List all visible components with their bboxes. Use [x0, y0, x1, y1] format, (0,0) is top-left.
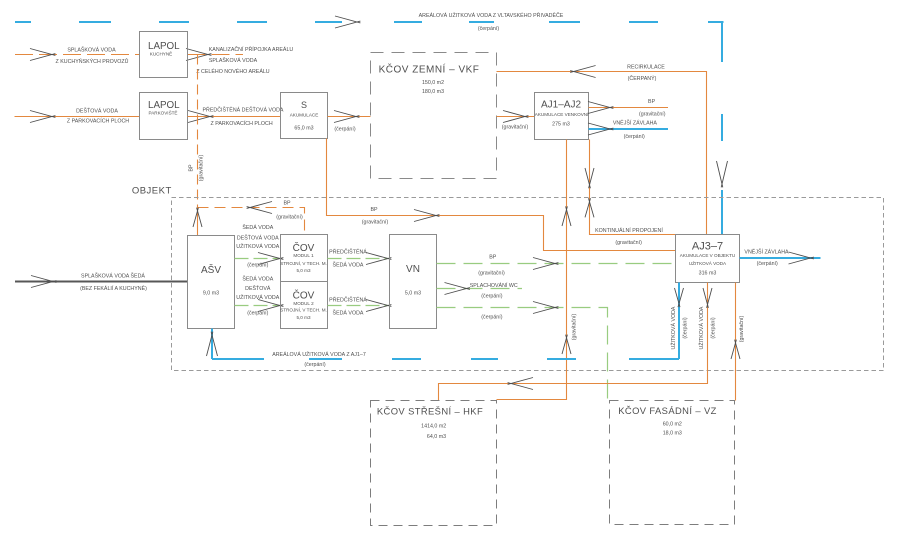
arrow left on recirkulace bottom run [508, 378, 533, 390]
wire VN to KCOV fasadni (green dashed) [437, 308, 608, 401]
separator COV modul1 box [281, 235, 328, 329]
svg-text:Z PARKOVACÍCH PLOCH: Z PARKOVACÍCH PLOCH [210, 120, 272, 127]
arrow VN BP [533, 258, 558, 270]
svg-text:SPLAŠKOVÁ VODA ŠEDÁ: SPLAŠKOVÁ VODA ŠEDÁ [81, 273, 145, 280]
arrow VN cerpani [533, 302, 558, 314]
svg-text:SPLAŠKOVÁ VODA: SPLAŠKOVÁ VODA [209, 57, 258, 64]
node label SPLASKOVA VODA SEDA [80, 273, 147, 292]
svg-text:(čerpání): (čerpání) [334, 126, 355, 132]
svg-text:MODUL 1: MODUL 1 [293, 253, 314, 258]
label LAPOL PARKOVISTE [148, 100, 180, 116]
svg-text:(gravitační): (gravitační) [572, 314, 578, 341]
label (gravitacni) [502, 125, 529, 131]
svg-text:(čerpání): (čerpání) [304, 362, 325, 368]
node label DESTOVA VODA Z PARKOVACICH PLOCH [67, 106, 129, 124]
wire destova voda input (orange) [15, 116, 140, 118]
wire kontinualni propojeni (orange AJ1-AJ2 to AJ3-7) [590, 140, 676, 235]
svg-text:AJ3–7: AJ3–7 [692, 240, 723, 252]
svg-text:BP: BP [370, 207, 378, 213]
label LAPOL KUCHYNE [148, 41, 180, 57]
svg-text:(čerpání): (čerpání) [247, 263, 268, 269]
label (cerpani) [334, 126, 355, 132]
svg-text:64,0 m3: 64,0 m3 [427, 434, 446, 440]
wire AJ3-7 vnejsi zavlaha (cyan) [740, 257, 821, 259]
svg-text:PŘEDČIŠTĚNÁ: PŘEDČIŠTĚNÁ [329, 296, 367, 304]
svg-text:1414,0 m2: 1414,0 m2 [421, 423, 446, 429]
separator LAPOL parkoviste box [140, 93, 188, 140]
label (cerpani) [481, 315, 502, 321]
svg-text:KČOV STŘEŠNÍ – HKF: KČOV STŘEŠNÍ – HKF [377, 406, 483, 417]
separator KCOV FASADNI - VZ dashed box [610, 401, 735, 525]
arrow recirkulace pointing left [570, 66, 595, 78]
svg-text:275 m3: 275 m3 [552, 121, 570, 127]
svg-text:(čerpání): (čerpání) [481, 315, 502, 321]
arrow down cyan [675, 288, 684, 307]
separator AJ3-7 box [676, 235, 740, 283]
svg-text:(čerpání): (čerpání) [624, 134, 645, 140]
node label AREALOVA UZITKOVA VODA Z AJ1-7 [272, 350, 366, 368]
label SPLACHOVANI WC (cerpani) [470, 282, 518, 300]
svg-text:BP: BP [189, 164, 195, 172]
svg-text:(gravitační): (gravitační) [615, 240, 642, 246]
label KONTINUALNI PROPOJENI (gravitacni) [595, 227, 663, 246]
svg-text:ŠEDÁ VODA: ŠEDÁ VODA [333, 309, 364, 316]
svg-text:(čerpání): (čerpání) [247, 311, 268, 317]
arrow up near AJ1-AJ2 [562, 206, 571, 226]
svg-text:180,0 m3: 180,0 m3 [422, 89, 444, 95]
svg-text:5,0 m3: 5,0 m3 [296, 315, 310, 320]
arrow on destova input [30, 111, 55, 123]
wire BP branch (orange dashed vertical from kuchyne line) [197, 55, 199, 208]
wire arealova uzitkova voda z AJ1-7 (cyan dashed bottom) [212, 358, 679, 360]
svg-text:SPLAŠKOVÁ VODA: SPLAŠKOVÁ VODA [67, 47, 116, 54]
svg-text:UŽITKOVÁ VODA: UŽITKOVÁ VODA [697, 306, 705, 349]
label OBJEKT [132, 186, 172, 197]
label (gravitacni) rotated [739, 316, 745, 343]
label VNEJSI ZAVLAHA (cerpani) [613, 119, 658, 141]
label BP (gravitacni) [639, 99, 666, 118]
arrow into VN 1 [366, 253, 391, 265]
svg-text:S: S [301, 100, 307, 110]
wire LAPOL parkoviste to S akumulace (orange) [188, 116, 281, 118]
label BP (gravitacni) [276, 201, 303, 221]
label UZITKOVA VODA (cerpani) rotated cyan line [669, 306, 689, 349]
label S AKUMULACE 65,0 m3 [290, 100, 319, 132]
svg-text:ČOV: ČOV [293, 289, 315, 302]
node label predcistena seda voda 1 [329, 248, 367, 269]
arrow BP return pointing left [247, 202, 272, 214]
svg-text:VN: VN [406, 264, 420, 275]
svg-text:LAPOL: LAPOL [148, 41, 180, 52]
svg-text:(gravitační): (gravitační) [502, 125, 529, 131]
arrow down on cyan riser [717, 161, 728, 187]
wire BP from S akumulace (orange, to AJ3-7) [327, 139, 676, 251]
wire ASV to COV modul2 (green dashed) [235, 305, 281, 307]
node label PREDCISTENA DESTOVA VODA [203, 105, 284, 127]
svg-text:VNĚJŠÍ ZÁVLAHA: VNĚJŠÍ ZÁVLAHA [744, 248, 789, 256]
arrow up into ASV [207, 332, 218, 356]
arrow on splaskova input [30, 49, 55, 61]
svg-text:(ČERPANÝ): (ČERPANÝ) [628, 75, 657, 82]
svg-text:(BEZ FEKÁLIÍ A KUCHYNĚ): (BEZ FEKÁLIÍ A KUCHYNĚ) [80, 284, 147, 292]
svg-text:AŠV: AŠV [201, 263, 221, 276]
svg-text:AREÁLOVÁ UŽITKOVÁ VODA Z AJ1–7: AREÁLOVÁ UŽITKOVÁ VODA Z AJ1–7 [272, 350, 366, 358]
arrow into AJ1-AJ2 [503, 111, 528, 123]
svg-text:DEŠŤOVÁ VODA: DEŠŤOVÁ VODA [237, 233, 279, 241]
svg-text:KANALIZAČNÍ PŘÍPOJKA AREÁLU: KANALIZAČNÍ PŘÍPOJKA AREÁLU [209, 45, 294, 53]
label RECIRKULACE (CERPANY) [627, 64, 665, 82]
svg-text:OBJEKT: OBJEKT [132, 186, 172, 197]
arrow up on kontinualni [585, 198, 594, 217]
arrow on top cyan main [335, 16, 360, 28]
svg-text:STROJNÍ, V TECH. M.: STROJNÍ, V TECH. M. [280, 307, 327, 313]
wire ASV bottom riser (cyan) [211, 329, 213, 360]
separator ASV box [188, 236, 235, 329]
svg-text:5,0 m3: 5,0 m3 [405, 291, 421, 297]
node label seda/destova/uzitkova voda 1 [236, 224, 279, 269]
svg-text:316 m3: 316 m3 [699, 271, 717, 277]
svg-text:5,0 m3: 5,0 m3 [296, 268, 310, 273]
svg-text:STROJNÍ, V TECH. M.: STROJNÍ, V TECH. M. [280, 260, 327, 266]
wire KCOV fasadni to AJ3-7 (orange gravitacni) [735, 283, 737, 401]
arrow down orange below AJ3-7 [703, 288, 712, 308]
svg-text:65,0 m3: 65,0 m3 [294, 126, 313, 132]
arrow on BP S line [414, 210, 439, 222]
label KCOV ZEMNI - VKF [379, 63, 480, 96]
label VN 5,0 m3 [405, 264, 421, 296]
wire kanalizacni pripojka (orange dashed after LAPOL kuchyne) [188, 54, 244, 56]
label KCOV STRESNI - HKF [377, 406, 483, 441]
svg-text:KUCHYNĚ: KUCHYNĚ [150, 50, 172, 57]
wire AJ3-7 down uzitkova voda (cyan) [678, 283, 680, 360]
wire areal utility water main (cyan dashed, top) [15, 21, 724, 23]
arrow BP out [588, 102, 613, 114]
separator LAPOL kuchyne box [140, 32, 188, 78]
node label predcistena seda voda 2 [329, 296, 367, 317]
wire BP return (orange dashed, COV1 to ASV) [198, 208, 305, 235]
svg-text:ŠEDÁ VODA: ŠEDÁ VODA [333, 262, 364, 269]
label ASV 9,0 m3 [201, 263, 221, 297]
svg-text:150,0 m2: 150,0 m2 [422, 80, 444, 86]
wire splaskova voda input (orange dashed) [15, 54, 140, 56]
label BP (gravitacni) rotated [189, 155, 205, 182]
svg-text:AKUMULACE: AKUMULACE [290, 112, 319, 117]
label BP (gravitacni) [478, 254, 505, 276]
svg-text:LAPOL: LAPOL [148, 100, 180, 111]
svg-text:BP: BP [283, 201, 291, 207]
arrow up on fasadni line [731, 340, 740, 359]
svg-text:(gravitační): (gravitační) [739, 316, 745, 343]
wire COV1 to VN (green dashed) [328, 258, 390, 260]
arrow vnejsi zavlaha AJ3-7 [789, 252, 814, 264]
svg-text:(gravitační): (gravitační) [199, 155, 205, 182]
svg-text:60,0 m2: 60,0 m2 [663, 421, 682, 427]
svg-text:Z CELÉHO NOVÉHO AREÁLU: Z CELÉHO NOVÉHO AREÁLU [196, 68, 269, 75]
wire VN BP to AJ3-7 (green dashed) [437, 263, 676, 265]
svg-text:UŽITKOVÁ VODA: UŽITKOVÁ VODA [689, 259, 727, 266]
svg-text:KČOV ZEMNÍ – VKF: KČOV ZEMNÍ – VKF [379, 63, 480, 76]
svg-text:MODUL 2: MODUL 2 [293, 301, 314, 306]
svg-text:KČOV FASÁDNÍ – VZ: KČOV FASÁDNÍ – VZ [618, 405, 717, 416]
svg-text:BP: BP [489, 254, 497, 260]
svg-text:(čerpání): (čerpání) [478, 26, 499, 32]
wire ASV top riser (orange) [197, 208, 199, 236]
wire S akumulace to KCOV zemni (orange) [328, 116, 371, 118]
label KCOV FASADNI - VZ [618, 405, 717, 437]
svg-text:18,0 m3: 18,0 m3 [663, 431, 682, 437]
wire ASV to COV modul1 (green dashed) [235, 258, 281, 260]
arrow into VN 2 [366, 300, 391, 312]
svg-text:DEŠŤOVÁ VODA: DEŠŤOVÁ VODA [76, 106, 118, 114]
wire AJ1-AJ2 to KCOV stresni (orange vertical) [497, 140, 567, 400]
wire KCOV zemni to AJ1-AJ2 (orange) [497, 116, 535, 118]
arrow up lower [562, 335, 571, 354]
svg-text:(čerpání): (čerpání) [757, 261, 778, 267]
label COV MODUL 1 [280, 241, 327, 273]
arrow after LAPOL kuchyne [186, 49, 211, 61]
arrow splachovani WC [445, 283, 470, 295]
arrow down on kontinualni [585, 168, 594, 188]
node label SPLASKOVA VODA Z KUCHYNSKYCH PROVOZU [56, 47, 129, 66]
wire COV2 to VN (green dashed) [328, 305, 390, 307]
node label seda/destova/uzitkova voda 2 [236, 276, 279, 317]
svg-text:(gravitační): (gravitační) [478, 271, 505, 277]
separator AJ1-AJ2 box [535, 93, 589, 140]
wire recirkulace continuation below AJ3-7 (orange) [439, 283, 708, 401]
svg-text:PŘEDČIŠTĚNÁ DEŠŤOVÁ VODA: PŘEDČIŠTĚNÁ DEŠŤOVÁ VODA [203, 105, 284, 113]
arrow gray input [31, 276, 56, 288]
wire recirkulace (orange, KCOV zemni to right riser) [497, 72, 707, 235]
label VNEJSI ZAVLAHA (cerpani) [744, 248, 789, 268]
svg-text:DEŠŤOVÁ: DEŠŤOVÁ [245, 284, 271, 292]
separator KCOV ZEMNI - VKF dashed box [371, 53, 497, 179]
label AJ1-AJ2 AKUMULACE VENKOVNI 275 m3 [535, 100, 589, 128]
svg-text:Z PARKOVACÍCH PLOCH: Z PARKOVACÍCH PLOCH [67, 118, 129, 125]
node label AREALOVA UZITKOVA VODA Z VLTAVSKEHO PRIVADECE [419, 11, 564, 32]
wire BP out of AJ1-AJ2 (orange) [589, 107, 669, 109]
svg-text:BP: BP [648, 99, 656, 105]
svg-text:(čerpání): (čerpání) [711, 317, 717, 338]
arrow S to KCOV [334, 111, 359, 123]
arrow LAPOL parkoviste output [188, 111, 213, 123]
wire splaskova voda seda input (gray) [15, 281, 188, 283]
svg-text:(gravitační): (gravitační) [362, 220, 389, 226]
separator OBJEKT dashed box [172, 198, 884, 371]
svg-text:PŘEDČIŠTĚNÁ: PŘEDČIŠTĚNÁ [329, 248, 367, 256]
arrow into COV2 [258, 300, 283, 312]
svg-text:AKUMULACE V OBJEKTU: AKUMULACE V OBJEKTU [680, 253, 735, 258]
svg-text:VNĚJŠÍ ZÁVLAHA: VNĚJŠÍ ZÁVLAHA [613, 119, 658, 127]
svg-text:ŠEDÁ VODA: ŠEDÁ VODA [242, 224, 273, 231]
svg-text:AREÁLOVÁ UŽITKOVÁ VODA Z VLTAV: AREÁLOVÁ UŽITKOVÁ VODA Z VLTAVSKÉHO PŘIV… [419, 11, 564, 19]
svg-text:Z KUCHYŇSKÝCH PROVOZŮ: Z KUCHYŇSKÝCH PROVOZŮ [56, 58, 129, 65]
svg-text:(čerpání): (čerpání) [481, 294, 502, 300]
svg-text:RECIRKULACE: RECIRKULACE [627, 64, 665, 70]
svg-text:PARKOVIŠTĚ: PARKOVIŠTĚ [148, 109, 177, 116]
svg-text:ČOV: ČOV [293, 241, 315, 254]
arrow into COV1 [258, 253, 283, 265]
node label KANALIZACNI PRIPOJKA AREALU [196, 45, 293, 75]
svg-text:ŠEDÁ VODA: ŠEDÁ VODA [242, 276, 273, 283]
separator S akumulace box [281, 93, 328, 139]
svg-text:AKUMULACE VENKOVNÍ: AKUMULACE VENKOVNÍ [535, 111, 589, 117]
wire vnejsi zavlaha out of AJ1-AJ2 (cyan) [589, 128, 669, 130]
svg-text:KONTINUÁLNÍ PROPOJENÍ: KONTINUÁLNÍ PROPOJENÍ [595, 227, 663, 234]
svg-text:UŽITKOVÁ VODA: UŽITKOVÁ VODA [236, 293, 279, 301]
label BP (gravitacni) [362, 207, 389, 226]
separator VN box [390, 235, 437, 329]
label (gravitacni) rotated [572, 314, 578, 341]
svg-text:9,0 m3: 9,0 m3 [203, 291, 219, 297]
svg-text:AJ1–AJ2: AJ1–AJ2 [541, 100, 581, 111]
arrow vnejsi zavlaha [588, 123, 613, 135]
svg-text:UŽITKOVÁ VODA: UŽITKOVÁ VODA [236, 242, 279, 250]
label UZITKOVA VODA (cerpani) rotated orange line [697, 306, 717, 349]
label COV MODUL 2 [280, 289, 327, 321]
svg-text:(čerpání): (čerpání) [683, 317, 689, 338]
label AJ3-7 AKUMULACE V OBJEKTU [680, 240, 735, 276]
svg-text:(gravitační): (gravitační) [276, 214, 303, 220]
arrow up into BP line [193, 208, 202, 227]
svg-text:UŽITKOVÁ VODA: UŽITKOVÁ VODA [669, 306, 677, 349]
separator KCOV STRESNI - HKF dashed box [371, 401, 497, 526]
svg-text:(gravitační): (gravitační) [639, 112, 666, 118]
wire VN splachovani WC (green) [437, 288, 523, 290]
wire cyan riser to AJ3-7 (right side vertical) [721, 22, 723, 235]
svg-text:SPLACHOVÁNÍ WC: SPLACHOVÁNÍ WC [470, 282, 518, 289]
